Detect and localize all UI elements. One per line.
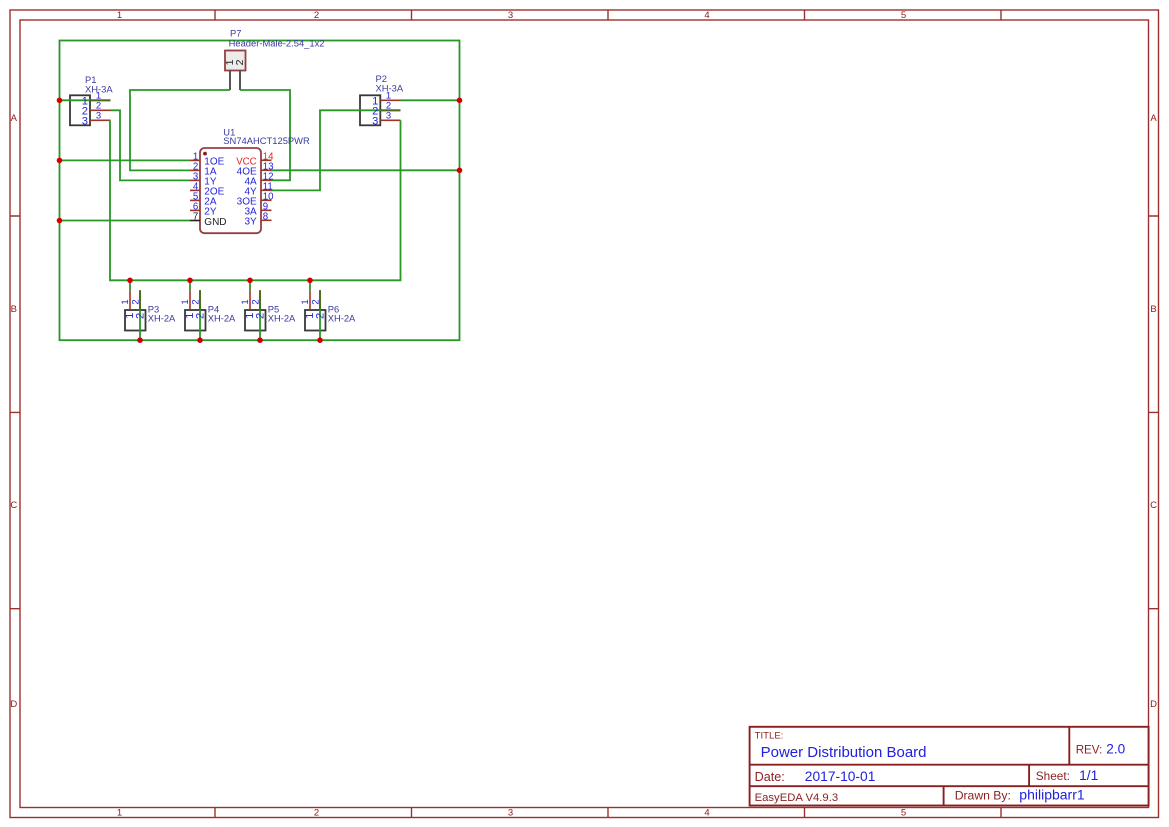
wire P3 pin1 to bus (129, 280, 131, 290)
wire P2 pin2 to U1 pin11 (271, 110, 401, 190)
svg-text:7: 7 (193, 212, 198, 223)
label P5 designator (268, 303, 279, 314)
svg-text:3: 3 (96, 111, 101, 122)
title block REV: label (1076, 743, 1103, 756)
svg-text:3: 3 (82, 116, 88, 128)
label P7 value Header-Male-2.54_1x2 (229, 37, 325, 48)
U1 pin 7 GND pin (190, 220, 200, 222)
wire P5 pin1 to bus (249, 280, 251, 290)
wire overlap P4 pin2 (199, 290, 201, 310)
junction dot (59.5,220.5) (57, 218, 63, 224)
connector P1 pins (90, 100, 111, 120)
svg-text:GND: GND (204, 217, 226, 228)
wire P5 pin2 to bottom bus (259, 290, 261, 340)
svg-text:B: B (11, 304, 17, 315)
junction dot (260,340.2) (257, 337, 263, 343)
frame row letters left (10, 113, 17, 710)
label P4 designator (208, 303, 219, 314)
U1 right pin numbers 14-8 (263, 151, 274, 222)
svg-text:B: B (1150, 304, 1156, 315)
svg-text:REV:: REV: (1076, 743, 1103, 756)
svg-text:3: 3 (508, 10, 513, 21)
svg-text:4: 4 (704, 808, 709, 819)
wire P1 pin3 to bus to P2 pin3 (110, 120, 401, 280)
svg-text:1: 1 (180, 299, 191, 304)
svg-text:TITLE:: TITLE: (755, 731, 784, 742)
connector P4 body (185, 310, 206, 331)
svg-text:XH-2A: XH-2A (328, 313, 356, 324)
title block title text (761, 744, 927, 761)
svg-text:2: 2 (314, 10, 319, 21)
svg-text:2: 2 (135, 313, 147, 319)
wire P7 pin1 to U1 pin2 (130, 90, 230, 170)
svg-text:2: 2 (315, 313, 327, 319)
junction dot (140,340.2) (137, 337, 143, 343)
title block grid (750, 727, 1149, 806)
wire P4 pin2 to bottom bus (199, 290, 201, 340)
wire P3 pin2 to bottom bus (139, 290, 141, 340)
junction dot (250,280.3) (247, 278, 253, 284)
svg-text:2.0: 2.0 (1106, 741, 1125, 756)
junction dot (130,280.3) (127, 278, 133, 284)
junction dot (320,340.2) (317, 337, 323, 343)
wire overlap P2 pin2 (380, 109, 400, 111)
P4 pin numbers (180, 299, 202, 304)
svg-text:Date:: Date: (755, 770, 785, 784)
svg-text:Drawn By:: Drawn By: (955, 788, 1011, 802)
U1 left pin names (204, 157, 226, 228)
svg-text:1: 1 (117, 808, 122, 819)
svg-text:8: 8 (263, 211, 268, 222)
svg-text:2: 2 (314, 808, 319, 819)
svg-text:XH-2A: XH-2A (148, 313, 176, 324)
svg-text:A: A (11, 113, 18, 124)
P2 pin names (372, 96, 378, 128)
title block sheet value (1079, 768, 1098, 783)
svg-text:1/1: 1/1 (1079, 768, 1098, 783)
junction dot (310,280.3) (307, 278, 313, 284)
connector P5 pins (250, 290, 260, 310)
junction dot (59.5,160.4) (57, 158, 63, 164)
svg-text:C: C (1150, 500, 1157, 511)
P3 pin names (124, 313, 147, 319)
svg-text:Power Distribution Board: Power Distribution Board (761, 744, 927, 761)
connector P6 body (305, 310, 326, 331)
wire U1 pin13 to right bus (271, 169, 460, 171)
svg-text:philipbarr1: philipbarr1 (1019, 786, 1085, 802)
wire overlap P3 pin2 (139, 290, 141, 310)
connector P2 pins (380, 100, 400, 120)
label P3 value XH-2A (148, 313, 176, 324)
junction dot (459.5,170.3) (457, 168, 463, 174)
wire P2 pin1 to right bus (401, 99, 460, 101)
label P4 value XH-2A (208, 313, 236, 324)
svg-text:3: 3 (508, 808, 513, 819)
connector P4 pins (190, 290, 200, 310)
label U1 designator (223, 127, 235, 138)
junction dot (459.5,100.3) (457, 98, 463, 104)
label P6 value XH-2A (328, 313, 356, 324)
label P3 designator (148, 303, 159, 314)
wire P1 pin2 to U1 pin3 (111, 110, 191, 180)
svg-text:1: 1 (300, 299, 311, 304)
U1 pin 1 marker (203, 152, 207, 156)
svg-text:1: 1 (240, 299, 251, 304)
wire U1 pin7 GND to left bus (60, 220, 191, 222)
wire P6 pin1 to bus (309, 280, 311, 290)
svg-text:Header-Male-2.54_1x2: Header-Male-2.54_1x2 (229, 37, 325, 48)
title block EasyEDA version (755, 792, 839, 804)
svg-text:XH-2A: XH-2A (268, 313, 296, 324)
svg-text:2: 2 (234, 59, 246, 65)
svg-text:2: 2 (251, 299, 262, 304)
wire main loop rectangle (60, 41, 460, 341)
U1 left pin numbers 1-7 (193, 152, 199, 223)
svg-text:2: 2 (255, 313, 267, 319)
junction dot (190,280.3) (187, 278, 193, 284)
P5 pin names (244, 313, 267, 319)
svg-text:5: 5 (901, 808, 906, 819)
title block Date: label (755, 770, 785, 784)
wire overlap P5 pin2 (259, 290, 261, 310)
U1 left pins 1-6 (190, 160, 200, 210)
svg-text:2: 2 (131, 299, 142, 304)
title block Sheet: label (1036, 769, 1070, 783)
P3 pin numbers (120, 299, 142, 304)
wire overlap P6 pin2 (319, 290, 321, 310)
header P7 body (225, 51, 246, 71)
svg-text:3: 3 (372, 116, 378, 128)
wire P6 pin2 to bottom bus (319, 290, 321, 340)
wire P1 pin1 to left bus (60, 99, 111, 101)
svg-text:2: 2 (311, 299, 322, 304)
svg-text:1: 1 (120, 299, 131, 304)
wire overlap P1 pin1 (90, 99, 111, 101)
connector P3 pins (130, 290, 140, 310)
svg-text:4: 4 (704, 10, 709, 21)
P5 pin numbers (240, 299, 262, 304)
frame row letters right (1150, 113, 1157, 710)
P1 pin numbers (96, 91, 101, 122)
label P2 designator (376, 73, 387, 84)
title block date value (805, 769, 876, 784)
U1 right pin names (236, 157, 257, 228)
label P1 designator (85, 74, 96, 85)
title block author value (1019, 786, 1085, 802)
svg-text:A: A (1150, 113, 1157, 124)
svg-text:C: C (10, 500, 17, 511)
P6 pin names (304, 313, 327, 319)
svg-text:D: D (10, 699, 17, 710)
wire P7 pin2 to U1 pin12 (240, 90, 290, 180)
wire U1 pin1 to left bus (60, 159, 191, 161)
svg-text:XH-2A: XH-2A (208, 313, 236, 324)
connector P2 body (360, 95, 380, 125)
label P6 designator (328, 303, 339, 314)
svg-text:SN74AHCT125PWR: SN74AHCT125PWR (223, 135, 310, 146)
svg-text:EasyEDA V4.9.3: EasyEDA V4.9.3 (755, 792, 839, 804)
connector P6 pins (310, 290, 320, 310)
junction dot (200,340.2) (197, 337, 203, 343)
label P5 value XH-2A (268, 313, 296, 324)
svg-text:2: 2 (195, 313, 207, 319)
header P7 pins (230, 71, 240, 91)
svg-text:5: 5 (901, 10, 906, 21)
connector P5 body (245, 310, 266, 331)
P2 pin numbers (386, 91, 391, 122)
svg-text:1: 1 (117, 10, 122, 21)
P4 pin names (184, 313, 207, 319)
connector P1 body (70, 95, 90, 125)
P6 pin numbers (300, 299, 322, 304)
label P2 value XH-3A (376, 82, 404, 93)
frame column numbers top (117, 10, 906, 21)
U1 right pins 8-14 (261, 160, 272, 220)
P7 pin names (224, 59, 246, 65)
svg-text:2017-10-01: 2017-10-01 (805, 769, 876, 784)
title block revision value (1106, 741, 1125, 756)
svg-text:D: D (1150, 699, 1157, 710)
frame column numbers bottom (117, 808, 906, 819)
svg-text:Sheet:: Sheet: (1036, 769, 1070, 783)
connector P3 body (125, 310, 146, 331)
label U1 value SN74AHCT125PWR (223, 135, 310, 146)
svg-text:3: 3 (386, 111, 391, 122)
P1 pin names (82, 96, 88, 128)
wire P4 pin1 to bus (189, 280, 191, 290)
svg-text:3Y: 3Y (244, 217, 257, 228)
op-amp buffer U1 body (200, 148, 261, 233)
svg-text:2: 2 (191, 299, 202, 304)
title block Drawn By: label (955, 788, 1011, 802)
label P7 designator (230, 28, 241, 39)
label P1 value XH-3A (85, 83, 113, 94)
title block TITLE: label (755, 731, 784, 742)
junction dot (59.5,100.3) (57, 98, 63, 104)
